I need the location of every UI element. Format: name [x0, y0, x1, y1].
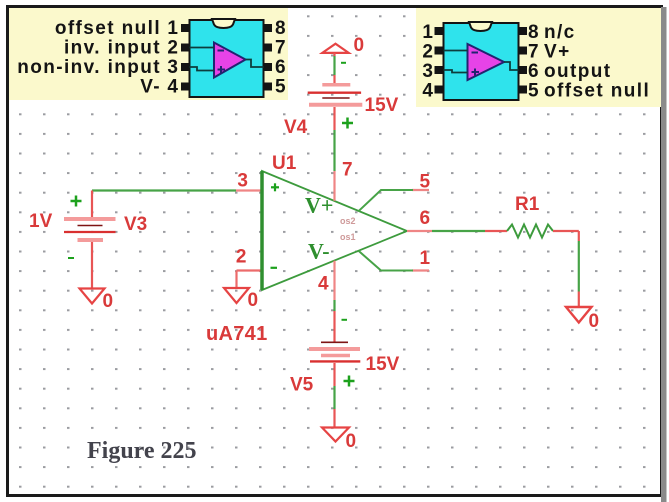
source V3 — [64, 191, 116, 289]
svg-text:5: 5 — [420, 172, 431, 193]
svg-text:0: 0 — [346, 431, 357, 452]
svg-text:uA741: uA741 — [206, 323, 268, 345]
svg-text:inv. input: inv. input — [64, 38, 161, 59]
DIP package U1 (left legend) — [181, 19, 272, 97]
svg-text:1: 1 — [422, 22, 433, 43]
pin numbers 1-4 right box — [422, 22, 433, 102]
svg-text:2: 2 — [236, 247, 247, 268]
pin numbers 8-5 left box — [275, 18, 286, 98]
internal wires left package — [190, 48, 264, 71]
op-amp triangle inside right package — [468, 44, 505, 80]
svg-text:7: 7 — [528, 42, 539, 63]
internal wires right package — [444, 51, 519, 73]
svg-text:non-inv. input: non-inv. input — [17, 57, 161, 78]
ground (R1) — [566, 307, 592, 323]
wire pin1 (green) — [359, 251, 414, 271]
svg-text:15V: 15V — [365, 95, 399, 116]
resistor R1 — [485, 225, 579, 238]
svg-text:os1: os1 — [340, 232, 356, 242]
svg-text:0: 0 — [103, 291, 114, 312]
svg-text:Figure 225: Figure 225 — [87, 438, 197, 464]
ground (V4 top, pointing up) — [322, 44, 348, 53]
DIP package (right legend) — [435, 22, 528, 100]
pin 4 stub — [333, 261, 335, 300]
wire pin6 to R1 (green) — [432, 230, 485, 232]
svg-text:7: 7 — [275, 38, 286, 59]
svg-text:V-: V- — [308, 239, 330, 264]
source V5 — [309, 300, 360, 428]
pin name labels left box — [17, 18, 161, 98]
svg-text:15V: 15V — [366, 354, 400, 375]
ground (V3) — [80, 289, 105, 304]
svg-text:3: 3 — [237, 171, 248, 192]
svg-text:5: 5 — [528, 81, 539, 102]
pinout legend box right — [416, 8, 661, 107]
svg-text:7: 7 — [342, 160, 353, 181]
svg-text:1V: 1V — [29, 211, 53, 232]
wire R1 to ground — [578, 231, 580, 307]
svg-text:4: 4 — [318, 274, 329, 295]
ground (V5 bottom) — [322, 428, 349, 442]
svg-text:V+: V+ — [305, 193, 333, 218]
svg-text:1: 1 — [167, 18, 178, 39]
svg-text:V3: V3 — [124, 214, 147, 235]
svg-text:2: 2 — [422, 42, 433, 63]
svg-text:8: 8 — [275, 18, 286, 39]
svg-text:0: 0 — [589, 311, 600, 332]
pin 6 stub — [407, 230, 432, 232]
svg-text:os2: os2 — [340, 216, 356, 226]
wire pin2 to ground (red) — [237, 271, 262, 289]
pin 3 stub — [236, 189, 261, 191]
wire pin5 (green) — [359, 190, 414, 211]
svg-text:output: output — [544, 61, 611, 82]
pin labels right box — [528, 22, 650, 102]
svg-text:offset null: offset null — [55, 18, 161, 39]
source V4 — [308, 53, 363, 171]
svg-text:4: 4 — [167, 77, 178, 98]
svg-text:8: 8 — [528, 22, 539, 43]
svg-text:4: 4 — [422, 81, 433, 102]
op-amp triangle inside left package — [214, 43, 246, 78]
svg-text:5: 5 — [275, 77, 286, 98]
svg-text:V4: V4 — [284, 117, 308, 138]
wire V3 to pin3 (green) — [92, 189, 236, 191]
pin 5 stub — [412, 189, 429, 191]
svg-text:n/c: n/c — [544, 22, 576, 43]
op-amp U1 — [262, 171, 407, 290]
svg-text:R1: R1 — [515, 194, 540, 215]
ground (pin2) — [224, 288, 249, 303]
svg-text:1: 1 — [420, 248, 431, 269]
svg-text:6: 6 — [528, 61, 539, 82]
svg-text:6: 6 — [275, 57, 286, 78]
svg-text:3: 3 — [167, 57, 178, 78]
svg-text:U1: U1 — [272, 153, 297, 174]
pin 7 stub — [333, 171, 335, 201]
svg-text:3: 3 — [422, 61, 433, 82]
right gray frame edge — [661, 7, 667, 502]
svg-text:6: 6 — [420, 208, 431, 229]
svg-text:0: 0 — [248, 290, 259, 311]
svg-text:0: 0 — [354, 35, 365, 56]
pin 1 stub — [412, 269, 429, 271]
svg-text:V-: V- — [140, 77, 161, 98]
pin numbers 1-4 left box — [167, 18, 178, 98]
svg-text:offset null: offset null — [544, 81, 650, 102]
pinout legend box left — [9, 8, 288, 100]
svg-text:V5: V5 — [290, 375, 314, 396]
svg-text:2: 2 — [167, 38, 178, 59]
svg-text:V+: V+ — [544, 42, 571, 63]
